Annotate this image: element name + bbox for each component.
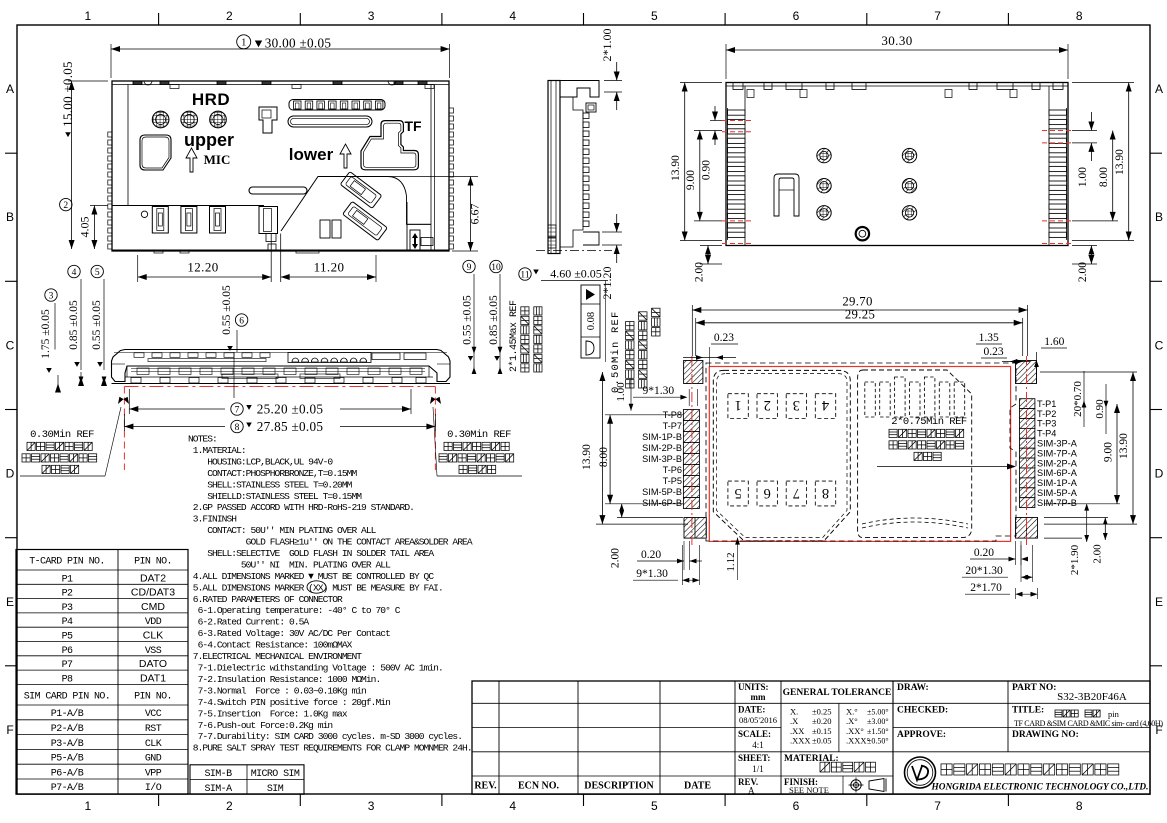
svg-text:C: C <box>1155 338 1164 352</box>
svg-text:.XXX: .XXX <box>790 736 811 746</box>
svg-text:.X: .X <box>790 716 798 726</box>
svg-text:0.55 ±0.05: 0.55 ±0.05 <box>221 285 233 335</box>
top view: HRD brand text <box>192 90 230 109</box>
svg-text:P6-A/B: P6-A/B <box>51 767 84 779</box>
svg-text:VSS: VSS <box>145 646 162 657</box>
svg-text:VPP: VPP <box>145 768 162 779</box>
svg-text:SEE NOTE: SEE NOTE <box>789 785 829 795</box>
svg-text:CONTACT: 50U'' MIN PLATING OVE: CONTACT: 50U'' MIN PLATING OVER ALL <box>188 525 377 536</box>
svg-text:3: 3 <box>368 9 375 23</box>
pcb: SIM bottom arcs <box>862 518 968 528</box>
top view: diagonal contact pair upper <box>340 172 382 209</box>
left dim 0.90 bottom view <box>701 106 723 180</box>
dim 1: width 30.00 <box>111 35 450 78</box>
svg-text:8.PURE SALT SPRAY TEST REQUIRE: 8.PURE SALT SPRAY TEST REQUIREMENTS FOR … <box>188 743 472 754</box>
pcb dim 1.00 top-left vertical <box>615 378 633 411</box>
pcb dim 1.35 right <box>976 332 1030 364</box>
top view: capsule slot under contacts <box>288 116 372 127</box>
svg-text:CHECKED:: CHECKED: <box>897 706 948 716</box>
svg-text:T-P7: T-P7 <box>663 421 682 431</box>
svg-text:GOLD FLASH≥1u'' ON THE CONTACT: GOLD FLASH≥1u'' ON THE CONTACT AREA&SOLD… <box>188 537 473 548</box>
right dim 2.00 bottom view <box>1072 246 1097 283</box>
svg-text:6.RATED PARAMETERS OF CONNECTO: 6.RATED PARAMETERS OF CONNECTOR <box>188 594 343 605</box>
svg-text:0.20: 0.20 <box>641 549 661 561</box>
svg-text:9*1.30: 9*1.30 <box>642 385 674 397</box>
bottom view: right pin serration <box>1049 108 1067 240</box>
dim 6.67 <box>323 177 482 252</box>
svg-text:SIM-A: SIM-A <box>204 784 232 795</box>
top view: eject slider block <box>407 202 433 251</box>
svg-text:7: 7 <box>793 485 800 501</box>
front view: shell profile <box>112 350 451 382</box>
front view: red card right edge <box>434 387 436 471</box>
svg-text:0.23: 0.23 <box>984 346 1004 358</box>
top view: three crosshatched screw bosses <box>152 111 226 128</box>
svg-text:0.30Min REF: 0.30Min REF <box>447 429 511 441</box>
svg-text:D: D <box>1155 467 1164 481</box>
svg-text:5: 5 <box>651 9 658 23</box>
svg-text:4: 4 <box>72 268 77 278</box>
svg-text:0.85 ±0.05: 0.85 ±0.05 <box>488 295 500 345</box>
top view: lower-left contact slots <box>141 207 225 234</box>
svg-text:2*1.45Max REF: 2*1.45Max REF <box>508 300 520 372</box>
svg-text:1.00: 1.00 <box>1077 167 1089 187</box>
svg-text:P5: P5 <box>62 632 73 643</box>
front view: mid body lines <box>125 366 433 379</box>
pcb dim 20*1.30 bottom-right <box>962 545 1033 582</box>
svg-text:DATE:: DATE: <box>738 705 765 715</box>
svg-text:P6: P6 <box>62 646 73 657</box>
right dim 13.90 bottom view <box>1072 83 1134 241</box>
svg-text:2.GP PASSED ACCORD WITH HRD-Ro: 2.GP PASSED ACCORD WITH HRD-RoHS-219 STA… <box>188 502 414 513</box>
svg-text:DAT1: DAT1 <box>140 672 166 684</box>
dim 9: 0.55 right stack <box>462 260 477 374</box>
svg-text:±0.15: ±0.15 <box>812 726 832 736</box>
svg-text:13.90: 13.90 <box>1118 433 1130 459</box>
sim type mini table text <box>204 769 299 795</box>
svg-text:C: C <box>6 338 15 352</box>
dim 2*1.00 side view <box>600 29 622 111</box>
svg-text:lower: lower <box>289 145 334 164</box>
svg-text:CMD: CMD <box>141 601 165 613</box>
company name english <box>931 783 1149 793</box>
bottom view: body outline <box>726 83 1068 246</box>
svg-text:±0.50°: ±0.50° <box>867 737 889 746</box>
bottom view: MIC hole ring <box>856 227 869 240</box>
top view: TF card outline <box>361 121 418 170</box>
right dim 8.00 bottom view <box>1072 131 1118 221</box>
svg-text:DRAW:: DRAW: <box>897 683 929 693</box>
svg-text:P3-A/B: P3-A/B <box>51 738 84 750</box>
bottom view: top edge tabs <box>733 83 1063 98</box>
svg-text:CLK: CLK <box>143 630 163 642</box>
svg-text:6-1.Operating temperature: -40: 6-1.Operating temperature: -40° C to 70°… <box>188 605 401 616</box>
svg-text:3.FININSH: 3.FININSH <box>188 514 236 525</box>
note 11: 4.60 height <box>519 267 608 363</box>
dim 2: height 15.00 <box>60 61 108 249</box>
front view: top contact details <box>134 353 426 362</box>
svg-text:13.90: 13.90 <box>1114 149 1126 175</box>
pcb: red centerline right pads <box>1026 356 1028 545</box>
svg-text:50U'' NI MIN. PLATING OVER AL: 50U'' NI MIN. PLATING OVER ALL <box>188 560 391 571</box>
svg-text:3: 3 <box>49 291 54 301</box>
pcb: TF pad digits bottom <box>734 485 829 501</box>
svg-text:0.55 ±0.05: 0.55 ±0.05 <box>462 295 474 345</box>
pcb dim 13.90 right vertical <box>1040 372 1137 524</box>
svg-text:SIM CARD PIN NO.: SIM CARD PIN NO. <box>24 692 110 703</box>
svg-text:4: 4 <box>509 799 516 813</box>
svg-text:1: 1 <box>84 799 91 813</box>
svg-text:5: 5 <box>734 485 741 501</box>
svg-text:2: 2 <box>226 9 233 23</box>
svg-text:5.ALL DIMENSIONS MARKER (XX) M: 5.ALL DIMENSIONS MARKER (XX) MUST BE MEA… <box>188 582 443 593</box>
svg-text:1/1: 1/1 <box>752 764 764 774</box>
note 0.30Min REF right block <box>430 397 522 476</box>
svg-text:08/05'2016: 08/05'2016 <box>739 715 777 725</box>
title block right grid <box>893 681 1150 752</box>
svg-text:.XX°: .XX° <box>846 726 864 736</box>
pcb: note 2*0.75Min REF <box>877 416 1016 470</box>
pcb dim 9*1.30 bottom-left <box>633 545 700 585</box>
svg-text:11.20: 11.20 <box>314 260 345 275</box>
svg-text:DESCRIPTION: DESCRIPTION <box>584 781 654 792</box>
svg-text:B: B <box>1155 210 1163 224</box>
pcb dim 0.20 bottom-left <box>637 541 702 570</box>
svg-text:SIM-7P-A: SIM-7P-A <box>1037 448 1078 458</box>
svg-text:6-2.Rated Current: 0.5A: 6-2.Rated Current: 0.5A <box>188 617 309 628</box>
svg-text:20*1.30: 20*1.30 <box>965 565 1003 577</box>
dim 2*1.20 side view <box>600 214 622 300</box>
svg-text:6: 6 <box>793 799 800 813</box>
top view: top edge latch tabs <box>133 81 434 89</box>
pcb: corner pad bottom-right <box>1016 518 1038 539</box>
svg-text:SHEET:: SHEET: <box>738 753 770 763</box>
dim 10: 0.85 right stack <box>488 260 502 374</box>
svg-text:30.30: 30.30 <box>881 33 912 48</box>
svg-text:9: 9 <box>467 263 472 273</box>
svg-text:MATERIAL:: MATERIAL: <box>784 754 839 764</box>
left dim 9.00 bottom view <box>685 131 722 221</box>
svg-text:SIM-5P-A: SIM-5P-A <box>1037 488 1078 498</box>
top view: upper insert arrow <box>186 148 197 172</box>
svg-text:9*1.30: 9*1.30 <box>636 568 668 580</box>
dim 11.20 <box>281 255 376 282</box>
pin assignment table <box>16 550 188 795</box>
svg-text:SHELL:STAINLESS STEEL T=0.20MM: SHELL:STAINLESS STEEL T=0.20MM <box>188 479 353 490</box>
pcb: left pad labels <box>642 410 682 508</box>
svg-text:7: 7 <box>235 405 240 415</box>
dim 5: 0.55 stack <box>91 265 107 386</box>
svg-text:1.12: 1.12 <box>725 552 737 571</box>
svg-text:T-P6: T-P6 <box>663 465 682 475</box>
svg-text:P7-A/B: P7-A/B <box>51 782 84 794</box>
side view: body profile <box>548 81 599 254</box>
svg-text:SIM-3P-B: SIM-3P-B <box>642 454 682 464</box>
pcb: TF pad squares bottom row <box>728 481 836 506</box>
top view: left shield serration <box>108 132 112 249</box>
svg-text:SIM-1P-B: SIM-1P-B <box>642 432 682 442</box>
pcb: SIM card dashed outline <box>858 370 972 538</box>
datum feature control frame <box>581 285 600 358</box>
front view: 8 pin bumps row <box>288 353 371 363</box>
svg-text:T-P5: T-P5 <box>663 476 682 486</box>
svg-text:SIM: SIM <box>267 784 284 795</box>
sim type mini table <box>190 765 304 794</box>
top view: mid capsule slot <box>249 187 307 194</box>
svg-text:±1.50°: ±1.50° <box>867 727 889 736</box>
general tolerance cell <box>783 688 892 795</box>
svg-text:3: 3 <box>368 799 375 813</box>
svg-text:MICRO SIM: MICRO SIM <box>251 769 300 780</box>
pcb: corner pad top-left <box>684 361 703 384</box>
pcb dim 2.00 bottom-left vertical <box>610 504 683 568</box>
notes text block <box>188 434 473 754</box>
svg-text:P8: P8 <box>62 674 73 685</box>
svg-text:4: 4 <box>821 397 829 413</box>
dim 6: 0.55 center <box>221 285 248 398</box>
svg-text:SIM-7P-B: SIM-7P-B <box>1037 498 1077 508</box>
svg-text:4.60 ±0.05: 4.60 ±0.05 <box>550 267 602 281</box>
top view: detect switch part <box>259 107 277 133</box>
svg-text:SIM-6P-A: SIM-6P-A <box>1037 468 1078 478</box>
svg-text:6-3.Rated Voltage: 30V AC/DC P: 6-3.Rated Voltage: 30V AC/DC Per Contact <box>188 628 390 639</box>
pcb dim 0.90 right vertical <box>1094 384 1109 434</box>
svg-text:1: 1 <box>241 38 246 49</box>
svg-text:F: F <box>6 723 13 737</box>
svg-text:0.85 ±0.05: 0.85 ±0.05 <box>68 300 80 350</box>
title block middle grid <box>735 681 893 794</box>
svg-text:.X°: .X° <box>846 716 858 726</box>
pcb dim 0.20 bottom-right <box>970 541 1028 565</box>
left dim 13.90 bottom view <box>670 83 722 241</box>
svg-text:T-P4: T-P4 <box>1037 429 1056 439</box>
svg-text:MIC: MIC <box>204 152 231 167</box>
top view: TF label text <box>404 118 422 134</box>
svg-text:SCALE:: SCALE: <box>738 729 771 739</box>
svg-text:DRAWING NO:: DRAWING NO: <box>1012 730 1079 740</box>
svg-text:2.00: 2.00 <box>1077 262 1089 282</box>
svg-text:0.30Min REF: 0.30Min REF <box>30 429 94 441</box>
company name chinese <box>941 764 1119 775</box>
title block frame <box>472 681 1150 794</box>
note 0.30Min REF left block <box>20 397 129 476</box>
side view: pin serration <box>583 113 589 227</box>
svg-text:APPROVE:: APPROVE: <box>897 730 946 740</box>
svg-text:4.ALL DIMENSIONS MARKED ▼ MUST: 4.ALL DIMENSIONS MARKED ▼ MUST BE CONTRO… <box>188 571 434 582</box>
pcb: SIM pad slots <box>865 377 965 417</box>
svg-text:2.00: 2.00 <box>610 548 622 568</box>
svg-text:1: 1 <box>84 9 91 23</box>
svg-text:X.: X. <box>790 707 798 717</box>
svg-text:DATO: DATO <box>139 658 167 670</box>
pcb dim 20*0.70 right vertical <box>1072 371 1086 427</box>
svg-text:SIM-B: SIM-B <box>204 769 232 780</box>
svg-text:6: 6 <box>764 485 771 501</box>
svg-text:P5-A/B: P5-A/B <box>51 753 84 765</box>
svg-text:6-4.Contact Resistance: 100mΩM: 6-4.Contact Resistance: 100mΩMAX <box>188 640 353 651</box>
svg-text:7-5.Insertion Force: 1.0Kg ma: 7-5.Insertion Force: 1.0Kg max <box>188 708 348 719</box>
pcb dim 2.00 right vertical <box>1044 518 1108 564</box>
top view: SIM window rounded square <box>140 135 171 170</box>
zone row labels <box>6 82 1164 737</box>
svg-text:ECN NO.: ECN NO. <box>518 781 560 792</box>
svg-text:0.23: 0.23 <box>714 332 734 344</box>
svg-text:13.90: 13.90 <box>581 444 593 470</box>
svg-text:PIN NO.: PIN NO. <box>134 692 172 703</box>
svg-text:CONTACT:PHOSPHORBRONZE,T=0.15M: CONTACT:PHOSPHORBRONZE,T=0.15MM <box>188 468 357 479</box>
svg-text:10: 10 <box>491 263 501 273</box>
svg-text:HRD: HRD <box>192 90 230 109</box>
svg-text:±5.00°: ±5.00° <box>867 708 889 717</box>
svg-text:REV.: REV. <box>474 781 497 792</box>
svg-text:P7: P7 <box>62 660 73 671</box>
svg-text:2: 2 <box>226 799 233 813</box>
pin table text <box>24 557 175 795</box>
svg-text:TF CARD &SIM CARD &MIC sim- ca: TF CARD &SIM CARD &MIC sim- card (4,60H) <box>1014 719 1163 728</box>
svg-text:13.90: 13.90 <box>670 155 682 181</box>
svg-text:30.00 ±0.05: 30.00 ±0.05 <box>265 35 332 50</box>
svg-text:8: 8 <box>235 423 240 433</box>
svg-text:T-P1: T-P1 <box>1037 399 1056 409</box>
svg-text:I/O: I/O <box>145 782 162 794</box>
revision table header <box>474 781 711 792</box>
svg-text:SIM-3P-A: SIM-3P-A <box>1037 439 1078 449</box>
svg-text:GENERAL TOLERANCE: GENERAL TOLERANCE <box>783 688 892 698</box>
bottom view: six hatched contact holes <box>817 148 917 220</box>
svg-text:T-CARD PIN NO.: T-CARD PIN NO. <box>29 557 105 568</box>
pcb dim 9*1.30 top-left <box>633 385 698 406</box>
svg-text:upper: upper <box>184 130 234 150</box>
svg-text:9.00: 9.00 <box>685 170 697 190</box>
left dim 2.00 bottom view <box>694 246 723 283</box>
front view: red card plane line <box>124 386 435 388</box>
part number text <box>1057 691 1127 703</box>
svg-text:CLK: CLK <box>145 739 162 750</box>
svg-text:3: 3 <box>793 397 800 413</box>
bottom view: left band red card lines <box>722 121 752 244</box>
svg-text:8: 8 <box>822 485 829 501</box>
svg-text:29.25: 29.25 <box>845 308 875 322</box>
side view: centerline datum <box>536 250 612 252</box>
pcb: corner pad top-right <box>1016 361 1037 384</box>
svg-text:VCC: VCC <box>145 709 162 720</box>
svg-text:X.°: X.° <box>846 707 858 717</box>
svg-text:0.55 ±0.05: 0.55 ±0.05 <box>91 300 103 350</box>
svg-text:SHELL:SELECTIVE GOLD FLASH IN: SHELL:SELECTIVE GOLD FLASH IN SOLDER TAI… <box>188 548 434 559</box>
svg-text:D: D <box>6 467 15 481</box>
pcb dim 2*1.90 right vertical <box>1044 504 1089 576</box>
top view: MIC label text <box>204 152 231 167</box>
title text chinese <box>1055 709 1120 719</box>
dim 30.30 <box>726 33 1068 79</box>
svg-text:P2: P2 <box>62 589 73 600</box>
svg-text:PART NO:: PART NO: <box>1012 683 1056 693</box>
top view: 8-contact window row <box>289 100 385 111</box>
svg-text:RST: RST <box>145 724 162 735</box>
svg-text:7: 7 <box>934 9 941 23</box>
svg-text:4.05: 4.05 <box>77 217 91 238</box>
pcb: right pad labels <box>1037 399 1078 508</box>
svg-text:P2-A/B: P2-A/B <box>51 723 84 735</box>
title text english <box>1014 719 1163 728</box>
dim 12.20 <box>138 255 272 282</box>
svg-text:20*0.70: 20*0.70 <box>1072 381 1084 417</box>
svg-text:7-1.Dielectric withstanding Vo: 7-1.Dielectric withstanding Voltage : 50… <box>188 663 443 674</box>
pcb dim 2*1.70 bottom-right <box>965 582 1038 599</box>
svg-text:UNITS:: UNITS: <box>738 682 769 692</box>
svg-text:8.00: 8.00 <box>598 447 610 467</box>
bottom view: right band red card lines <box>1042 131 1072 244</box>
svg-text:SIM-2P-B: SIM-2P-B <box>642 443 682 453</box>
pcb dim 8.00 left vertical <box>598 415 683 504</box>
top view: right shield serration <box>449 108 454 249</box>
top view: lower insert arrow <box>340 144 351 168</box>
svg-text:P3: P3 <box>62 603 73 614</box>
pcb: red centerline left pads <box>691 356 693 545</box>
svg-text:5: 5 <box>651 799 658 813</box>
svg-text:1.35: 1.35 <box>979 332 999 344</box>
right dim 1.00 bottom view <box>1072 112 1097 187</box>
svg-text:7-2.Insulation Resistance: 100: 7-2.Insulation Resistance: 1000 MΩMin. <box>188 674 380 685</box>
top view: upper label text <box>184 130 234 150</box>
top view: lower label text <box>289 145 334 164</box>
svg-text:7-7.Durability: SIM CARD 3000: 7-7.Durability: SIM CARD 3000 cycles. m-… <box>188 731 462 742</box>
draw/checked/approve labels <box>897 683 1079 740</box>
svg-text:0.50Min REF: 0.50Min REF <box>610 310 622 393</box>
top view: bottom edge details <box>112 250 449 253</box>
svg-text:0.90: 0.90 <box>701 160 713 180</box>
pcb dim 13.90 left vertical <box>581 372 688 524</box>
svg-text:A: A <box>1155 82 1163 96</box>
svg-text:1.MATERIAL:: 1.MATERIAL: <box>188 445 246 456</box>
top view: two small switch pads <box>320 220 341 238</box>
pcb: right pad column <box>1020 399 1035 508</box>
finish projection symbols <box>849 778 887 793</box>
svg-text:±3.00°: ±3.00° <box>867 717 889 726</box>
svg-text:27.85 ±0.05: 27.85 ±0.05 <box>257 419 324 434</box>
svg-text:B: B <box>6 210 14 224</box>
side note 0.50Min REF vertical <box>610 308 660 393</box>
svg-text:A: A <box>6 82 14 96</box>
side view: bottom solder tabs <box>548 225 556 248</box>
svg-text:±0.05: ±0.05 <box>812 736 832 746</box>
svg-text:E: E <box>1155 595 1163 609</box>
svg-text:2*1.70: 2*1.70 <box>970 582 1002 594</box>
pcb dim 9.00 right vertical <box>1044 404 1120 504</box>
note 2*1.45Max shield height vertical <box>508 300 542 372</box>
svg-text:P1-A/B: P1-A/B <box>51 708 84 720</box>
svg-text:S32-3B20F46A: S32-3B20F46A <box>1057 691 1127 703</box>
svg-text:pin: pin <box>1108 709 1120 719</box>
svg-text:4: 4 <box>509 9 516 23</box>
svg-text:P1: P1 <box>62 574 73 585</box>
svg-text:mm: mm <box>751 692 766 702</box>
pcb: TF pad digits top <box>734 397 829 413</box>
svg-text:1.60: 1.60 <box>1044 336 1064 348</box>
svg-text:0.08: 0.08 <box>586 312 597 330</box>
svg-text:0.20: 0.20 <box>974 547 994 559</box>
pcb dim 1.12 bottom vertical <box>725 538 740 580</box>
svg-text:2*0.75Min REF: 2*0.75Min REF <box>891 416 967 428</box>
svg-text:2.00: 2.00 <box>1092 544 1104 564</box>
dim 8: 27.85 shell width <box>124 414 435 434</box>
top view: center contact block <box>259 207 281 283</box>
dim 7: 25.20 card width <box>129 389 411 417</box>
svg-text:11: 11 <box>520 270 529 280</box>
svg-text:T-P3: T-P3 <box>1037 419 1056 429</box>
note 5 XX circle <box>307 581 326 593</box>
svg-text:8: 8 <box>1076 799 1083 813</box>
